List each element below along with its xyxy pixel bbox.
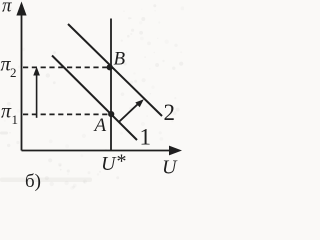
svg-text:B: B: [114, 49, 126, 70]
line 2 (through B): [68, 24, 162, 116]
svg-text:2: 2: [10, 65, 17, 80]
horizontal axis arrowhead: [169, 146, 182, 156]
svg-text:б): б): [25, 171, 41, 192]
line 1 (through A): [52, 56, 137, 141]
northeast arrow from line 1 to line 2: [119, 103, 140, 122]
svg-text:1: 1: [12, 112, 19, 127]
svg-text:2: 2: [164, 100, 176, 125]
up arrow between pi1 and pi2: [36, 74, 38, 118]
svg-text:π: π: [2, 0, 12, 17]
svg-text:π: π: [1, 101, 12, 123]
dashed line pi2: [23, 66, 107, 68]
dashed line pi1: [23, 113, 108, 115]
svg-text:U: U: [162, 157, 178, 179]
point A: [108, 111, 114, 117]
horizontal axis (U axis): [22, 150, 173, 152]
svg-text:1: 1: [140, 125, 152, 150]
svg-text:A: A: [93, 115, 107, 136]
vertical axis arrowhead: [16, 2, 26, 16]
vertical line at U*: [110, 19, 112, 151]
point B: [107, 64, 113, 70]
svg-text:U: U: [101, 153, 117, 175]
vertical axis (pi axis): [21, 12, 23, 151]
svg-text:*: *: [117, 151, 127, 173]
